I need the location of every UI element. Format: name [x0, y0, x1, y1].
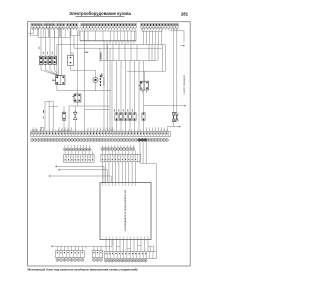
wire to relay K3 [143, 71, 145, 81]
wire step W176 with arrow [49, 175, 112, 182]
connector pair X9 (twisted) [172, 112, 178, 122]
wire from A1 to bus [70, 65, 72, 70]
wire step W166 with arrow [55, 166, 104, 183]
wire W48 left riser [73, 36, 75, 49]
pin stubs below strip X1 [32, 28, 177, 30]
wire to fuse F2 [116, 61, 118, 113]
relay K1 [52, 76, 65, 85]
label text beside L5 [100, 75, 105, 86]
svg-text:Электрооборудование кузова: Электрооборудование кузова [69, 11, 131, 16]
bus wire W105 right with arrow [144, 105, 187, 107]
wire trunk x84 [84, 30, 86, 131]
resistor A1 [68, 55, 74, 65]
wire diagonals merging lamp returns [41, 64, 59, 75]
fuse F5 [128, 113, 131, 121]
terminal circles row 2 right [101, 145, 135, 150]
wire to relay K2 [77, 30, 79, 94]
wire bracket above X2 mid [57, 130, 70, 132]
wire to component A1 [70, 30, 72, 55]
label 15 under X8 [71, 52, 88, 56]
lamp L4 [53, 56, 56, 64]
bus wire W48 horizontal [74, 47, 162, 49]
fuse F6 lower lead [134, 120, 136, 131]
wire to relay K1 pin [61, 28, 63, 76]
wire right arrow lower [167, 126, 181, 128]
wire trunk x139 [138, 61, 140, 132]
wire drop x162 [161, 45, 163, 72]
connector strip X6 (bottom small) [92, 246, 102, 257]
terminal circles row 1 [31, 138, 169, 141]
wire trunk x110 [109, 48, 111, 131]
diode V1 lower lead [74, 120, 76, 132]
terminal circles under X6 [92, 258, 102, 261]
bulb L5 [93, 77, 98, 82]
lamp L2 [44, 56, 47, 64]
wire branch y109 [85, 109, 111, 111]
wire to fuse F6 [134, 61, 136, 113]
diode V1 [73, 112, 77, 120]
relay K1 bottom lead [56, 85, 58, 91]
connector block X8 (second row) [80, 31, 136, 41]
fuse F3 [119, 113, 122, 121]
lamp label marks [39, 47, 53, 55]
fuse F3 lower lead [120, 120, 122, 131]
connector strip X4 right (below row2) [101, 151, 141, 162]
lamp L1 [39, 56, 42, 64]
connector shell row under strip [31, 28, 80, 38]
diagram border frame [28, 22, 191, 266]
wire W106 left drop [68, 106, 70, 131]
fuse F4 lower lead [125, 120, 127, 131]
fuse F4 [124, 113, 127, 121]
wires block U1 to strip X7 [106, 240, 154, 252]
terminal circles row 2 left [63, 145, 91, 151]
terminal circles under X5 [56, 258, 84, 261]
bulb L5 bottom lead [95, 83, 97, 91]
wire to lamp L1 [40, 30, 42, 56]
fuse F2 [115, 113, 118, 121]
wire bus W44 left drop to relay K1 [56, 45, 58, 76]
wires row1 circles right to bus W163 [140, 141, 156, 163]
bus wire W44 horizontal [57, 44, 166, 46]
bus wire W90 horizontal [57, 90, 111, 92]
fuse F7 [142, 113, 145, 121]
wire to lamp L4 [54, 30, 56, 56]
wire arrow line W246 [51, 240, 112, 249]
fuse F6 [133, 113, 136, 121]
svg-text:монтажный блок предохранителей: монтажный блок предохранителей [124, 190, 127, 231]
fuse F1 [62, 112, 66, 120]
arrow label mid-left [43, 110, 44, 118]
wire bus W44 right drop [165, 45, 167, 72]
wires X4 to fuse block [102, 162, 135, 183]
wire trunk x107 [107, 45, 109, 132]
wire trunk x104 [103, 45, 105, 132]
relay K2 bottom lead [77, 102, 79, 106]
wire to lamp L2 [45, 30, 47, 56]
wire to fuse F3 [120, 61, 122, 113]
fuse F7 lower lead [143, 120, 145, 131]
fuse-relay block U1 (монтажный блок) [100, 183, 151, 240]
svg-text:15: 15 [71, 52, 75, 56]
wires comb bus W44 to bus W60 [107, 45, 158, 61]
relay K3 bottom stubs [142, 90, 146, 93]
wire from strip to node at relay K1 [58, 28, 60, 76]
wires comb block X8 to bus W44 [104, 41, 134, 45]
wire bus to bulb L5 [71, 70, 96, 77]
connector strip X1 (top pin row) [31, 23, 178, 28]
wires W246 to strip X5 [57, 246, 82, 250]
fuse F5 lower lead [129, 120, 131, 131]
relay K3 [139, 81, 149, 90]
wire right trunk 1 [173, 28, 175, 127]
connector strip X7 (bottom right) [104, 252, 156, 259]
wire top-right jog [170, 31, 185, 47]
connector strip X5 (bottom left) [56, 251, 85, 258]
connector strip X3 left (below row2) [63, 151, 94, 162]
fuse F2 lower lead [116, 120, 118, 131]
bus wire W60 horizontal [100, 60, 157, 62]
svg-text:281: 281 [181, 11, 189, 16]
relay K2 [72, 94, 81, 102]
wires comb strip X1 right to bus W44 [143, 30, 161, 44]
fuse F1 lower lead [63, 120, 65, 131]
wire to fuse F1 [63, 106, 65, 112]
svg-text:к жгуту фонарей: к жгуту фонарей [183, 75, 186, 95]
terminal circles under X7 [105, 259, 148, 262]
fuse cluster label marks [114, 109, 133, 111]
wire to lamp L3 [49, 30, 51, 56]
wire step W170 with arrow [58, 169, 107, 183]
wire to diode V1 [74, 106, 76, 111]
bus wire W71 horizontal [127, 70, 166, 72]
wire bracket above X2 left [32, 127, 43, 131]
wire stubs into strip X2 [32, 127, 167, 131]
wire trunk x112 [111, 61, 113, 132]
wire stub x100 with label [100, 48, 102, 77]
wire to fuse F5 [129, 61, 131, 113]
wire to fuse F4 [125, 61, 127, 113]
connector strip X2 (middle, top row) [31, 132, 171, 137]
wire bracket to left frame [28, 28, 34, 33]
wire long vertical x156 [155, 163, 157, 251]
svg-text:Монтажный блок под панелью при: Монтажный блок под панелью приборов (вну… [28, 267, 138, 271]
wire bracket mid-left [45, 101, 58, 131]
connector shell top right [143, 28, 163, 31]
bus wire W106 horizontal [69, 105, 110, 107]
wire to fuse F7 [143, 61, 145, 113]
lamp L3 [48, 56, 51, 64]
wire right trunk 2 [176, 28, 178, 121]
